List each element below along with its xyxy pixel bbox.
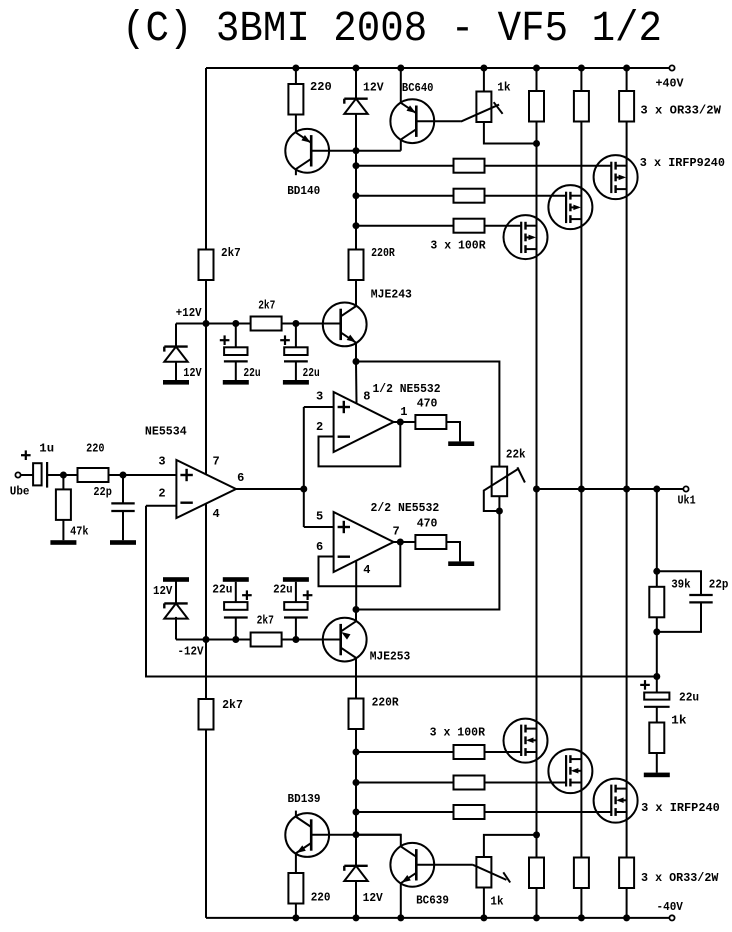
resistor 0R33/2W top #1 — [529, 91, 544, 122]
node NE5534 output junction — [300, 486, 307, 493]
ground below zener D2 — [163, 380, 189, 385]
svg-text:-12V: -12V — [178, 645, 205, 659]
wire junction to 220 — [63, 474, 77, 476]
wire pot wiper diagonal bottom — [473, 865, 507, 880]
node feedback/39k/22u junction — [653, 673, 660, 680]
wire BD139 emitter to 220 — [295, 854, 297, 873]
label 12V zener -12 — [153, 584, 173, 598]
node spine gate row 3 — [353, 222, 360, 229]
svg-text:2: 2 — [316, 420, 323, 434]
svg-text:BD139: BD139 — [288, 792, 321, 806]
label NE5534 — [145, 424, 187, 438]
mosfet IRFP9240 #2 (top mid) — [548, 185, 592, 229]
label 3 x OR33/2W top — [640, 103, 721, 117]
svg-text:22p: 22p — [93, 485, 112, 499]
resistor 2k7 (+12V rail) — [251, 317, 282, 331]
resistor 2k7 bottom-left — [199, 699, 214, 730]
svg-text:1/2 NE5532: 1/2 NE5532 — [373, 382, 441, 396]
node 39k/22p top — [653, 568, 660, 575]
wire U2B pin5 input — [304, 526, 334, 528]
label MJE253 — [370, 650, 411, 664]
resistor 220R top — [349, 250, 364, 281]
wire BC640 collector lead — [400, 140, 402, 151]
label BC639 — [416, 894, 449, 908]
wire U2A pin8 supply — [355, 362, 358, 404]
node -40V at branch 1 — [533, 914, 540, 921]
ground above 22u #3 — [223, 577, 249, 582]
node spine gate row 1 — [353, 162, 360, 169]
label 22u #1 — [243, 366, 260, 380]
label 220R top — [371, 246, 395, 260]
wire gate row 2 top — [356, 195, 566, 197]
svg-text:22u: 22u — [243, 366, 260, 380]
svg-text:1k: 1k — [497, 80, 510, 94]
wire zener D3 drop — [175, 603, 177, 639]
wire gate row 1 top — [356, 165, 611, 167]
label 22p input — [93, 485, 112, 499]
label 12V bottom — [363, 891, 384, 905]
label 1u — [39, 442, 54, 456]
wire U2A pin3 input — [304, 406, 334, 408]
svg-text:7: 7 — [213, 454, 220, 468]
zener diode D1 12V top — [344, 99, 367, 114]
wire feedback down-left (pin2 net) — [146, 506, 657, 677]
wire MJE253 base — [296, 639, 341, 641]
node bias bottom (zener/BD139 base/BC639 coll) — [353, 831, 360, 838]
terminal +40V — [669, 65, 674, 70]
ground below 47k — [50, 540, 76, 545]
node 39k/22p bottom — [653, 628, 660, 635]
svg-text:6: 6 — [237, 471, 244, 485]
node +40V at branch 3 — [623, 65, 630, 72]
wire pot wiper tick bottom — [503, 872, 510, 882]
wire BC639 emitter to -40V — [400, 884, 402, 918]
capacitor 22p output — [689, 595, 712, 602]
wire branch 3 output rail to 0R33 bottom — [626, 489, 628, 858]
svg-text:22u: 22u — [679, 690, 699, 704]
wire zener D3 to rail — [175, 619, 177, 640]
svg-text:22u: 22u — [303, 366, 320, 380]
svg-text:BC640: BC640 — [402, 81, 434, 95]
node output rail at branch 1 — [533, 486, 540, 493]
pin 7 NE5534 — [213, 454, 220, 468]
wire U2B feedback loop — [319, 542, 401, 586]
ground 470 U2A — [448, 441, 474, 446]
title text (C) 3BMI 2008 - VF5 1/2 — [122, 4, 662, 53]
wire output rail — [537, 488, 684, 490]
svg-text:7: 7 — [393, 525, 400, 539]
label BD139 — [288, 792, 321, 806]
svg-text:12V: 12V — [153, 584, 173, 598]
wire zener D2 drop — [175, 324, 177, 347]
ground above zener D3 — [163, 577, 189, 582]
label MJE243 — [371, 288, 412, 302]
wire feedback to NE5532 inputs (vertical) — [303, 407, 305, 527]
op-amp U2A 1/2 NE5532 — [334, 392, 394, 452]
ground below 22u #2 — [283, 380, 309, 385]
node 22k bottom junction — [496, 508, 503, 515]
resistor 220 top (BD140 emitter) — [288, 68, 303, 132]
node bias mid bottom (MJE253 emitter) — [353, 606, 360, 613]
label 3 x 100R top — [430, 239, 486, 253]
node -12V at x=206 — [203, 636, 210, 643]
resistor 1k output — [649, 723, 664, 754]
resistor 220R bottom — [349, 699, 364, 730]
transistor BC639 (NPN) — [390, 843, 434, 887]
node 220/22p junction — [120, 472, 127, 479]
wire BC640 base to pot 1k — [416, 120, 461, 122]
resistor 47k — [56, 475, 71, 540]
node spine gate row 1 bottom — [353, 749, 360, 756]
wire pot wiper diagonal top — [461, 105, 499, 122]
wire NE5534 output pin6 — [236, 488, 304, 490]
wire pot wiper tick top — [494, 102, 503, 114]
svg-text:+12V: +12V — [176, 306, 203, 320]
svg-text:BC639: BC639 — [416, 894, 449, 908]
wire U2B output — [394, 541, 416, 543]
wire branch 3 +40V to 0R33 — [626, 68, 628, 91]
label Ube — [10, 484, 30, 498]
wire MJE243 emitter to bias mid — [355, 343, 357, 361]
pin 4 U2B — [363, 563, 370, 577]
wire -12V rail — [176, 639, 341, 641]
wire BD139 base / BC639 collector — [311, 834, 401, 836]
wire U2A output — [394, 421, 416, 423]
wire output to 39k — [656, 489, 658, 587]
node -40V at branch 2 — [578, 914, 585, 921]
label 2k7 +12V rail — [258, 299, 275, 313]
svg-text:4: 4 — [213, 507, 220, 521]
label 39k — [671, 578, 691, 592]
node U2B output junction — [397, 539, 404, 546]
resistor 220 input — [78, 468, 109, 482]
svg-text:3: 3 — [158, 454, 165, 468]
label 12V zener +12 — [183, 366, 202, 380]
label -40V — [657, 900, 684, 914]
node -12V junction at 22u #4 — [292, 636, 299, 643]
wire 22k bottom to wiper — [498, 496, 500, 511]
svg-text:12V: 12V — [363, 891, 384, 905]
label 2k7 top-left — [221, 246, 241, 260]
label 22p output — [709, 578, 729, 592]
resistor 100R bottom row1 — [454, 745, 485, 759]
node bias top (zener/BD140 base/BC640 coll) — [353, 147, 360, 154]
wire NE5534 pin4 supply — [205, 504, 207, 640]
svg-text:22u: 22u — [273, 583, 293, 597]
label 12V top — [363, 80, 384, 94]
mosfet IRFP240 #1 (bottom left) — [504, 719, 548, 763]
wire branch 1 0R33 to -40V — [536, 888, 538, 918]
svg-text:Ube: Ube — [10, 484, 30, 498]
wire bias mid to 22k pot top — [356, 362, 499, 467]
svg-text:MJE243: MJE243 — [371, 288, 412, 302]
label 220 top — [310, 80, 332, 94]
label +40V — [656, 77, 685, 91]
wire BD139 collector stub — [295, 811, 297, 817]
transistor BC640 (PNP) — [390, 99, 434, 143]
pin 8 U2A — [363, 390, 370, 404]
wire 470 U2B to ground — [446, 542, 460, 561]
wire 1k to ground — [656, 753, 658, 773]
svg-text:2k7: 2k7 — [258, 299, 275, 313]
wire NE5534 pin2 input — [146, 505, 176, 507]
mosfet IRFP240 #2 (bottom mid) — [548, 749, 592, 793]
transistor BD139 (NPN) — [285, 813, 329, 857]
resistor 100R top row1 — [454, 159, 485, 173]
wire branch 2 0R33 to -40V — [580, 888, 582, 918]
svg-text:1k: 1k — [490, 895, 503, 909]
wire -12V rail to 2k7 bottom — [205, 640, 207, 700]
pin 4 NE5534 — [213, 507, 220, 521]
resistor 0R33/2W bottom #3 — [619, 858, 634, 889]
label 1k bottom — [490, 895, 503, 909]
wire gate row 3 bottom — [356, 811, 611, 813]
label 47k — [70, 525, 88, 539]
ground above 22u #4 — [283, 577, 309, 582]
node +12V at x=206 — [203, 320, 210, 327]
terminal Ube input — [15, 472, 20, 477]
wire 39k to feedback node — [656, 617, 658, 692]
resistor 100R bottom row2 — [454, 776, 485, 790]
svg-text:Uk1: Uk1 — [678, 493, 696, 507]
transistor MJE243 (NPN) — [323, 303, 367, 347]
terminal Uk1 — [683, 486, 688, 491]
wire gate row 1 bottom — [356, 751, 521, 753]
wire MJE253 collector to 220R — [355, 658, 357, 698]
node bias mid top (MJE243 emitter) — [353, 358, 360, 365]
wire branch 3 0R33 to -40V — [626, 888, 628, 918]
label BC640 — [402, 81, 434, 95]
wire 22k to bias mid bottom — [356, 511, 499, 610]
svg-text:3 x OR33/2W: 3 x OR33/2W — [641, 871, 719, 885]
svg-text:8: 8 — [363, 390, 370, 404]
svg-text:(C) 3BMI 2008 - VF5 1/2: (C) 3BMI 2008 - VF5 1/2 — [122, 4, 662, 53]
svg-text:2k7: 2k7 — [257, 613, 274, 627]
svg-text:3: 3 — [316, 390, 323, 404]
node +12V junction at 22u #2 — [292, 320, 299, 327]
ground below 22p — [110, 540, 136, 545]
wire U2A feedback loop — [319, 422, 401, 466]
pin 1 U2A — [400, 405, 407, 419]
svg-text:22p: 22p — [709, 578, 729, 592]
pin 6 NE5534 — [237, 471, 244, 485]
pin 2 NE5534 — [158, 486, 165, 500]
zener diode D4 12V bottom — [344, 866, 367, 881]
svg-text:220R: 220R — [371, 246, 395, 260]
ground 470 U2B — [448, 561, 474, 566]
svg-text:BD140: BD140 — [287, 184, 320, 198]
wire gate row 3 top — [356, 225, 521, 227]
svg-text:22u: 22u — [212, 583, 232, 597]
svg-text:-40V: -40V — [657, 900, 684, 914]
svg-text:220R: 220R — [372, 696, 400, 710]
label 1/2 NE5532 — [373, 382, 441, 396]
svg-text:4: 4 — [363, 563, 370, 577]
label 22u output — [679, 690, 699, 704]
svg-text:2k7: 2k7 — [221, 246, 241, 260]
zener diode 12V (+12V rail) — [164, 347, 187, 380]
node -12V junction at 22u #3 — [232, 636, 239, 643]
label 22u #2 — [303, 366, 320, 380]
wire 22k wiper tick — [517, 467, 525, 482]
label 1k top — [497, 80, 510, 94]
node -40V at zener D4 — [353, 914, 360, 921]
wire 2k7 bottom to -40V rail — [205, 730, 207, 918]
pin 2 U2A — [316, 420, 323, 434]
pin 3 U2A — [316, 390, 323, 404]
wire 22p branch top — [657, 571, 701, 595]
label 220R bottom — [372, 696, 400, 710]
svg-text:3 x 100R: 3 x 100R — [430, 725, 486, 739]
wire branch 1 +40V to 0R33 — [536, 68, 538, 91]
node +12V junction at 22u #1 — [232, 320, 239, 327]
potentiometer 1k bottom — [476, 835, 536, 918]
svg-text:6: 6 — [316, 540, 323, 554]
potentiometer 1k top — [476, 68, 536, 144]
pin 7 U2B — [393, 525, 400, 539]
resistor 100R bottom row3 — [454, 805, 485, 819]
label 2/2 NE5532 — [371, 501, 440, 515]
resistor 470 U2A — [415, 415, 446, 429]
capacitor 1u input (polarized) — [33, 462, 63, 488]
node 1u/47k junction — [60, 472, 67, 479]
svg-text:3 x IRFP240: 3 x IRFP240 — [641, 801, 720, 815]
label Uk1 — [678, 493, 696, 507]
wire +40V top rail — [206, 67, 669, 69]
svg-text:470: 470 — [417, 397, 438, 411]
ground below 1k output — [644, 773, 670, 778]
label -12V — [178, 645, 205, 659]
label 3 x 100R bottom — [430, 725, 486, 739]
label 470 U2B — [417, 517, 438, 531]
wire NE5534 pin7 supply — [205, 324, 207, 475]
label 22u #4 — [273, 583, 293, 597]
wire branch 2 output rail to 0R33 bottom — [580, 489, 582, 858]
svg-text:2: 2 — [158, 486, 165, 500]
svg-text:470: 470 — [417, 517, 438, 531]
svg-text:2k7: 2k7 — [222, 698, 243, 712]
node +40V at branch 1 — [533, 65, 540, 72]
wire BD140 collector stub — [295, 170, 297, 176]
node +40V at branch 2 — [578, 65, 585, 72]
mosfet IRFP9240 #1 (top right) — [594, 155, 638, 199]
svg-text:220: 220 — [86, 442, 104, 456]
label 220 bottom — [311, 890, 331, 904]
node output rail at branch 3 — [623, 486, 630, 493]
label 220 input — [86, 442, 104, 456]
wire U2B pin4 supply — [355, 561, 357, 610]
svg-text:39k: 39k — [671, 578, 691, 592]
label 22k — [506, 448, 526, 462]
wire branch 1 output rail to 0R33 bottom — [536, 489, 538, 858]
node +40V at zener D1 — [353, 65, 360, 72]
wire left spine upper (+40V rail to 2k7) — [205, 68, 207, 250]
label 22u #3 — [212, 583, 232, 597]
wire branch 2 +40V to 0R33 — [580, 68, 582, 91]
resistor 0R33/2W bottom #1 — [529, 858, 544, 889]
node -40V at 1k pot — [480, 914, 487, 921]
wire +40V to zener D1 — [355, 68, 357, 99]
svg-text:1k: 1k — [671, 714, 686, 728]
wire 220R bottom to bias node — [355, 729, 357, 835]
wire 22p branch bottom — [657, 602, 701, 632]
node -40V at branch 3 — [623, 914, 630, 921]
label 3 x OR33/2W bottom — [641, 871, 719, 885]
wire 220R to MJE243 collector — [355, 280, 357, 306]
ground below 22u #1 — [223, 380, 249, 385]
label +12V — [176, 306, 203, 320]
svg-text:1u: 1u — [39, 442, 54, 456]
svg-text:220: 220 — [311, 890, 331, 904]
node spine gate row 2 — [353, 192, 360, 199]
wire zener D1 to bias node — [355, 114, 357, 151]
node pot 1k bottom at branch — [533, 140, 540, 147]
label 470 U2A — [417, 397, 438, 411]
capacitor 22p input — [111, 475, 134, 540]
node output rail at 39k branch — [653, 486, 660, 493]
resistor 2k7 (-12V rail) — [251, 633, 282, 647]
resistor 2k7 top-left — [199, 250, 214, 281]
wire branch 1 0R33 to output rail — [536, 122, 538, 490]
node +40V at BC640 — [397, 65, 404, 72]
wire bias node to zener D4 — [355, 835, 357, 866]
plus sign at input — [21, 450, 31, 460]
capacitor 22u output (polarized) — [640, 680, 669, 722]
pin 3 NE5534 — [158, 454, 165, 468]
resistor 39k — [649, 587, 664, 618]
wire MJE253 emitter lead — [355, 610, 357, 622]
svg-text:3 x IRFP9240: 3 x IRFP9240 — [640, 156, 725, 170]
wire 470 U2A to ground — [446, 422, 460, 441]
op-amp U2B 2/2 NE5532 — [334, 512, 394, 572]
svg-text:2/2 NE5532: 2/2 NE5532 — [371, 501, 440, 515]
wire 22k wiper — [484, 468, 519, 511]
label 1k output — [671, 714, 686, 728]
label BD140 — [287, 184, 320, 198]
svg-text:NE5534: NE5534 — [145, 424, 187, 438]
resistor 0R33/2W top #3 — [619, 91, 634, 122]
wire +12V rail — [176, 323, 341, 325]
wire -40V bottom rail — [206, 917, 669, 919]
capacitor 22u #1 (+12V) — [220, 324, 248, 381]
wire branch 3 0R33 to output rail — [626, 122, 628, 490]
node pot 1k top at branch — [533, 831, 540, 838]
mosfet IRFP9240 #3 (top left) — [504, 215, 548, 259]
op-amp U1 NE5534 — [176, 460, 236, 518]
pin 6 U2B — [316, 540, 323, 554]
wire BC640 emitter to +40V — [400, 68, 402, 102]
capacitor 22u #3 (-12V) — [224, 582, 252, 640]
capacitor 22u #2 (+12V) — [280, 324, 308, 381]
node -40V at 220 resistor — [292, 914, 299, 921]
pin 5 U2B — [316, 510, 323, 524]
node spine gate row 3 bottom — [353, 809, 360, 816]
svg-text:12V: 12V — [183, 366, 202, 380]
node +40V at 220 resistor — [292, 65, 299, 72]
wire BC639 collector lead — [356, 835, 401, 847]
mosfet IRFP240 #3 (bottom right) — [594, 779, 638, 823]
wire zener D4 to -40V rail — [355, 881, 357, 918]
svg-text:5: 5 — [316, 510, 323, 524]
resistor 220 bottom (BD139 emitter) — [288, 873, 303, 918]
svg-text:1: 1 — [400, 405, 407, 419]
resistor 0R33/2W top #2 — [574, 91, 589, 122]
wire 2k7 to +12V rail — [205, 280, 207, 324]
svg-text:12V: 12V — [363, 80, 384, 94]
node spine gate row 2 bottom — [353, 779, 360, 786]
transistor MJE253 (PNP) — [323, 618, 367, 662]
zener diode 12V (-12V rail) — [164, 582, 187, 619]
